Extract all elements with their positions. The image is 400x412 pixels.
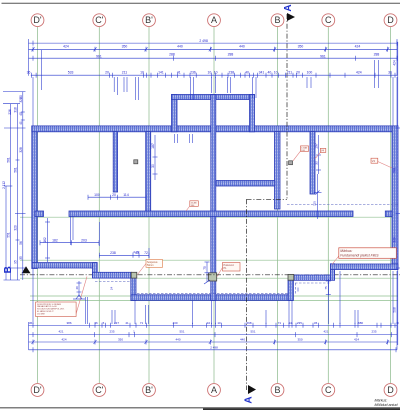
- svg-text:B': B': [145, 15, 153, 25]
- dim ticks T2: [32, 56, 34, 61]
- wall step3 vertical: [288, 280, 293, 300]
- leader label L10 small mid-left: [186, 201, 198, 211]
- svg-text:424: 424: [354, 338, 359, 342]
- wall interior stub y183: [216, 181, 275, 187]
- svg-text:30: 30: [314, 161, 318, 165]
- green level line y217: [20, 216, 398, 218]
- dim band end verticals: [28, 39, 30, 76]
- svg-text:561: 561: [392, 167, 396, 173]
- svg-text:40: 40: [75, 286, 79, 290]
- svg-text:36: 36: [314, 321, 318, 325]
- svg-text:235: 235: [297, 321, 302, 325]
- svg-text:318: 318: [14, 107, 18, 113]
- wall bump right: [250, 95, 255, 132]
- section marker A bottom triangle: [248, 385, 256, 394]
- svg-text:41: 41: [177, 71, 181, 75]
- svg-text:288: 288: [169, 52, 175, 56]
- left chain rotated texts: [2, 95, 23, 264]
- svg-text:10: 10: [207, 321, 211, 325]
- svg-text:114: 114: [123, 193, 129, 197]
- svg-text:A: A: [211, 15, 217, 25]
- svg-text:421: 421: [58, 330, 63, 334]
- svg-text:56: 56: [19, 241, 23, 245]
- dim texts T1: [27, 39, 392, 75]
- svg-text:72: 72: [144, 251, 148, 255]
- svg-text:288: 288: [374, 52, 380, 56]
- svg-text:182: 182: [52, 239, 58, 243]
- svg-text:10: 10: [217, 321, 221, 325]
- section line A-A dash-dot vertical top: [247, 14, 288, 390]
- svg-text:238: 238: [228, 71, 234, 75]
- svg-text:2 498: 2 498: [210, 345, 218, 349]
- svg-text:75: 75: [203, 266, 207, 270]
- interior dim vertical x47: [45, 218, 50, 262]
- dim ticks B4: [32, 347, 34, 352]
- svg-text:350: 350: [297, 338, 302, 342]
- svg-text:424: 424: [63, 45, 69, 49]
- wall top outer: [32, 126, 398, 132]
- svg-text:A: A: [211, 385, 217, 395]
- svg-text:698: 698: [246, 321, 251, 325]
- leader label L2: [315, 148, 326, 158]
- svg-text:421: 421: [323, 330, 328, 334]
- svg-text:36: 36: [27, 71, 31, 75]
- gridline A vertical green: [213, 27, 215, 383]
- green level line y278: [20, 277, 398, 279]
- interior dim 75 above pillar: [204, 262, 210, 284]
- wall interior x311 vertical: [310, 132, 315, 194]
- svg-text:320: 320: [392, 237, 396, 243]
- wall interior mid vertical A: [211, 95, 216, 301]
- pillar at mid bottom: [209, 273, 217, 281]
- leader label L3: [371, 158, 392, 168]
- bottom border line: [0, 407, 400, 409]
- wall bottom midright: [293, 275, 331, 280]
- svg-text:2 112: 2 112: [2, 181, 6, 189]
- bottom extension lines: [33, 269, 397, 324]
- dim line B4: [29, 349, 398, 351]
- section line B-B dash-dot horizontal: [20, 274, 400, 276]
- top extension lines: [33, 60, 397, 143]
- svg-text:V4: V4: [372, 159, 376, 163]
- wall interior B' vertical: [146, 132, 151, 211]
- svg-text:20: 20: [112, 193, 116, 197]
- svg-text:B: B: [274, 15, 280, 25]
- svg-text:B': B': [145, 385, 153, 395]
- svg-text:508: 508: [392, 307, 396, 313]
- interior dim 40/20 left bottom: [77, 281, 82, 297]
- svg-text:141: 141: [158, 71, 164, 75]
- dim ticks T3: [31, 73, 33, 78]
- interior dim vertical beside B' wall: [153, 135, 158, 180]
- green level line y296: [30, 295, 398, 297]
- svg-text:226: 226: [8, 109, 12, 115]
- gridline D' vertical green: [37, 27, 39, 383]
- svg-text:424: 424: [392, 60, 396, 66]
- svg-text:50mm: 50mm: [147, 264, 154, 267]
- svg-text:350: 350: [298, 45, 304, 49]
- wall bottom middle: [131, 295, 293, 301]
- wall interior horizontal stub right: [385, 211, 392, 217]
- leader label L1: [293, 146, 309, 161]
- svg-text:36: 36: [29, 321, 33, 325]
- dim line T2: [29, 57, 398, 59]
- svg-text:C: C: [325, 15, 332, 25]
- svg-text:40: 40: [245, 71, 249, 75]
- left dimension chains: [3, 50, 41, 280]
- svg-text:-0,72: -0,72: [133, 250, 140, 254]
- svg-text:320: 320: [14, 225, 18, 231]
- interior dim 197 vertical beside x311 wall: [316, 135, 321, 174]
- wall step2 vertical: [131, 273, 136, 300]
- gridline C vertical green: [327, 27, 329, 383]
- dim line T3: [31, 74, 397, 76]
- wall bottom right: [330, 264, 398, 270]
- svg-text:D': D': [33, 15, 41, 25]
- svg-text:533: 533: [68, 71, 74, 75]
- svg-text:36: 36: [94, 321, 98, 325]
- svg-text:B: B: [274, 385, 280, 395]
- svg-text:238: 238: [110, 251, 116, 255]
- svg-text:A: A: [243, 396, 254, 403]
- dim ticks B1: [32, 323, 397, 353]
- svg-text:71: 71: [140, 321, 144, 325]
- wall bump left: [172, 95, 178, 132]
- svg-text:551: 551: [6, 232, 10, 238]
- svg-text:326: 326: [19, 97, 23, 103]
- svg-text:Märkus:: Märkus:: [340, 249, 352, 253]
- svg-text:211: 211: [287, 71, 293, 75]
- svg-text:10: 10: [208, 71, 212, 75]
- svg-text:36: 36: [388, 71, 392, 75]
- wall bump top: [172, 95, 255, 100]
- dim line B2: [29, 334, 398, 336]
- svg-text:10: 10: [214, 71, 218, 75]
- svg-text:71: 71: [278, 321, 282, 325]
- svg-text:10: 10: [274, 71, 278, 75]
- section line A-A dash-dot vertical bottom: [246, 199, 248, 390]
- interior dim 100 line above wall: [88, 195, 146, 200]
- svg-text:586: 586: [358, 321, 363, 325]
- svg-text:115: 115: [312, 201, 316, 206]
- svg-text:197: 197: [314, 143, 318, 149]
- svg-text:440: 440: [177, 45, 183, 49]
- wall right outer: [392, 126, 398, 270]
- svg-text:328: 328: [19, 147, 23, 153]
- dim ticks B3: [32, 340, 34, 345]
- svg-text:24: 24: [110, 287, 114, 291]
- svg-text:440: 440: [239, 45, 245, 49]
- wall bottom midleft: [93, 272, 132, 278]
- gridline D vertical green: [390, 27, 392, 383]
- section marker A top triangle: [287, 13, 295, 21]
- svg-text:100: 100: [307, 71, 313, 75]
- interior dim vertical below x311 wall end: [314, 174, 322, 219]
- TOP DIMENSION BAND: [29, 39, 398, 76]
- wall left outer: [32, 126, 37, 269]
- pillar at step2: [131, 272, 137, 278]
- svg-text:211: 211: [122, 71, 128, 75]
- svg-text:350: 350: [118, 338, 123, 342]
- leader label L9 bottom-left note: [36, 277, 87, 317]
- svg-text:424: 424: [356, 71, 362, 75]
- svg-text:235: 235: [109, 330, 114, 334]
- dashed hidden line y204 right: [287, 204, 398, 206]
- green level line y260: [20, 259, 398, 261]
- top border line: [2, 2, 400, 4]
- svg-text:424: 424: [355, 45, 361, 49]
- svg-text:75: 75: [324, 286, 328, 290]
- svg-text:386: 386: [66, 321, 71, 325]
- svg-text:150 MM: 150 MM: [37, 313, 45, 315]
- dim line T1: [29, 48, 398, 50]
- svg-text:40: 40: [268, 71, 272, 75]
- svg-text:35: 35: [19, 256, 23, 260]
- right chain rotated texts: [392, 60, 396, 313]
- svg-text:440: 440: [240, 338, 245, 342]
- svg-text:203: 203: [81, 239, 87, 243]
- wall bottom left: [32, 263, 97, 268]
- svg-text:B: B: [3, 266, 14, 273]
- svg-text:235: 235: [371, 330, 376, 334]
- section marker B left triangle: [22, 266, 31, 273]
- svg-text:961: 961: [96, 54, 102, 58]
- bottom title bar line: [203, 408, 400, 410]
- section line A-A jog: [247, 198, 288, 200]
- dim line T0 overall: [29, 42, 398, 44]
- svg-text:20: 20: [296, 71, 300, 75]
- footing dashed below midleft wall: [95, 205, 398, 294]
- interior dim 238/40/72 line: [99, 248, 149, 258]
- pillar at step3: [288, 274, 294, 280]
- wall interior horizontal main: [69, 211, 353, 217]
- wall step4 vertical: [330, 264, 334, 281]
- B-B dash over pillar: [207, 274, 220, 276]
- dim texts B1: [29, 321, 399, 349]
- svg-text:D: D: [387, 385, 394, 395]
- svg-text:Fundamendi plekist FiteS: Fundamendi plekist FiteS: [340, 254, 379, 258]
- elevation marker bottom-left: [73, 295, 85, 299]
- grey cube symbol right room: [289, 161, 293, 165]
- svg-text:341: 341: [259, 71, 265, 75]
- svg-text:D': D': [33, 385, 41, 395]
- svg-text:A: A: [283, 4, 294, 11]
- wall interior x275 vertical: [275, 132, 281, 209]
- green level line y301: [30, 300, 398, 302]
- grey cube symbol left room: [134, 160, 138, 164]
- gridline B vertical green: [277, 27, 279, 383]
- svg-text:551: 551: [250, 330, 255, 334]
- gridline B' vertical green: [148, 27, 150, 383]
- svg-text:20: 20: [105, 71, 109, 75]
- svg-text:40: 40: [19, 112, 23, 116]
- svg-text:100: 100: [94, 193, 100, 197]
- svg-text:430: 430: [172, 321, 177, 325]
- svg-text:236: 236: [190, 71, 196, 75]
- BOTTOM DIMENSION BAND: [29, 322, 398, 350]
- svg-text:41: 41: [125, 321, 129, 325]
- svg-text:561: 561: [14, 167, 18, 173]
- svg-text:187: 187: [151, 143, 155, 149]
- svg-text:C: C: [325, 385, 332, 395]
- svg-text:C': C': [95, 15, 103, 25]
- grid circles bottom: [31, 384, 44, 397]
- svg-text:961: 961: [320, 54, 326, 58]
- svg-text:95: 95: [14, 260, 18, 264]
- svg-text:Mõõdud antud: Mõõdud antud: [375, 403, 399, 407]
- svg-text:551: 551: [179, 330, 184, 334]
- gridline C' vertical green: [98, 27, 100, 383]
- footing dashed above middle wall: [137, 293, 288, 295]
- dim line B1: [29, 325, 398, 327]
- svg-text:C': C': [95, 385, 103, 395]
- svg-text:424: 424: [61, 338, 66, 342]
- svg-text:561: 561: [6, 157, 10, 163]
- svg-text:440: 440: [175, 338, 180, 342]
- right dimension chain: [396, 42, 400, 345]
- interior dim 182/203 line: [40, 217, 99, 247]
- svg-text:288: 288: [228, 52, 234, 56]
- dim ticks T1: [32, 41, 398, 78]
- leader label L6 soojustus: [138, 260, 163, 275]
- svg-text:41: 41: [19, 121, 23, 125]
- svg-text:D: D: [387, 15, 394, 25]
- leader label L8 big note: [332, 248, 396, 265]
- svg-text:10: 10: [140, 71, 144, 75]
- footing dashed right step box: [295, 282, 330, 284]
- svg-text:30: 30: [151, 164, 155, 168]
- wall step1 vertical: [93, 263, 98, 278]
- leader label L7: [217, 263, 240, 277]
- svg-text:2 498: 2 498: [199, 39, 208, 43]
- WALLS: [32, 95, 398, 301]
- dim ticks B2: [32, 332, 34, 337]
- svg-text:350: 350: [122, 45, 128, 49]
- svg-text:162: 162: [43, 237, 47, 243]
- wall interior x113 vertical: [113, 132, 117, 192]
- interior dim right bottom 75: [298, 281, 331, 295]
- dim line B3: [29, 341, 398, 343]
- wall interior horizontal stub left: [35, 211, 44, 217]
